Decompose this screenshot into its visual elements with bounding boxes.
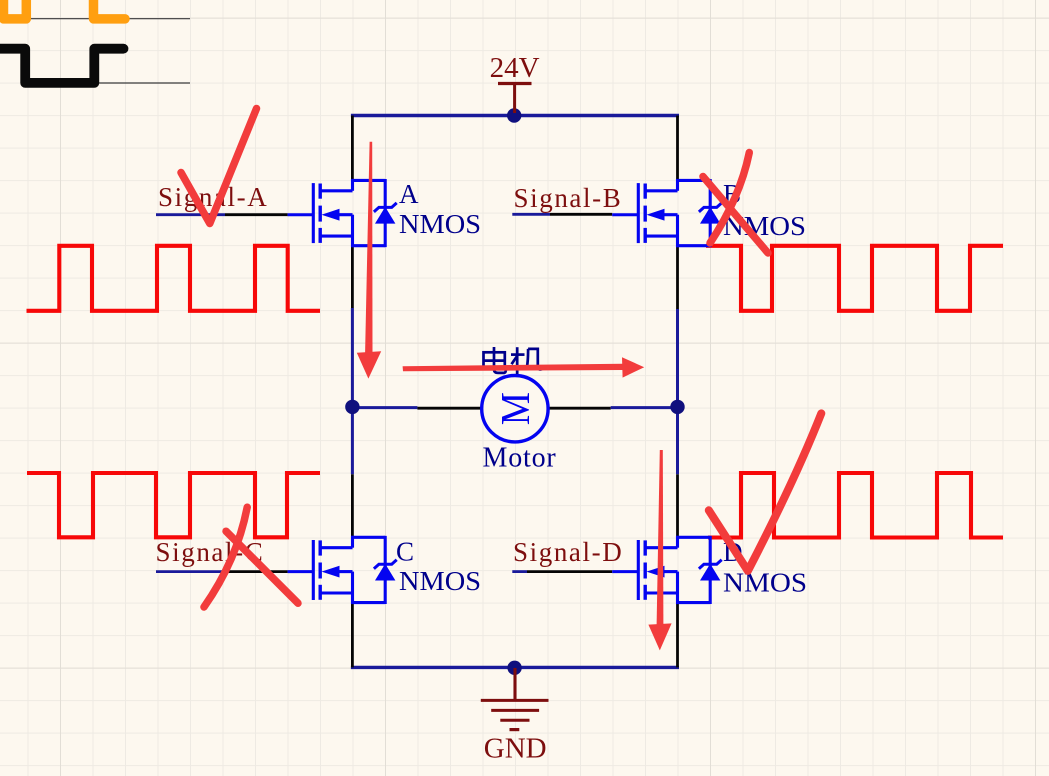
ground symbol bar 2 (491, 709, 539, 712)
wire Signal-A (black part) (225, 213, 288, 216)
ground symbol bar 4 (510, 728, 520, 731)
svg-text:Motor: Motor (483, 443, 557, 474)
wire: left rail below A (black) (351, 246, 354, 308)
transistor C (NMOS) (313, 536, 396, 604)
transistor B (NMOS) (638, 179, 721, 247)
wire Signal-A (navy part) (156, 213, 225, 216)
wire: left rail below mid junction (navy) (351, 407, 354, 475)
wire: motor branch right (navy) (611, 406, 678, 409)
wire: top rail 24V (351, 114, 679, 118)
power port 24V stem (513, 84, 516, 114)
wire: left rail drain stub A (black) (351, 116, 354, 181)
svg-text:NMOS: NMOS (399, 209, 481, 239)
wire: bottom rail GND (351, 666, 679, 669)
PWM waveform upper-left (Signal-A) (27, 246, 321, 311)
wire: motor branch middle (black) (417, 407, 610, 410)
junction motor left (345, 400, 359, 414)
transistor D (NMOS) (638, 536, 721, 604)
annotation X over B stroke 2 (710, 153, 749, 244)
axis line of black waveform (94, 82, 190, 84)
ground symbol bar 1 (481, 699, 549, 702)
svg-text:GND: GND (484, 733, 547, 765)
black waveform (0, 49, 124, 83)
label dianji (Chinese "motor") stroke drawing (484, 347, 542, 374)
svg-text:NMOS: NMOS (399, 566, 481, 596)
annotation X over Signal-C stroke 1 (204, 507, 247, 607)
gate lead Q-C (288, 570, 314, 573)
svg-text:24V: 24V (490, 52, 540, 84)
junction 24V (507, 108, 521, 122)
wire: right rail to mid junction (navy) (676, 309, 679, 407)
ground symbol bar 3 (500, 719, 529, 722)
wire: right rail below D (black) (676, 603, 679, 668)
PWM waveform lower-right (Signal-D) (708, 473, 1003, 538)
annotation arrow right (through motor) shaft (403, 364, 624, 371)
power port 24V bar (498, 82, 532, 85)
svg-text:Signal-B: Signal-B (514, 183, 623, 213)
annotation X over B stroke 1 (703, 177, 768, 254)
wire: right rail below B (black) (676, 246, 679, 309)
PWM waveform lower-left (Signal-C) (27, 473, 320, 537)
annotation arrow right head (622, 357, 644, 377)
annotation arrow down (left, current path A) shaft (365, 142, 372, 353)
junction motor right (670, 400, 684, 414)
wire: left rail below C (black) (351, 603, 354, 668)
axis line of orange waveform (28, 18, 190, 20)
wire: motor branch left (navy) (352, 406, 417, 409)
gate lead Q-D (612, 570, 638, 573)
wire: right rail above D (black) (676, 474, 679, 537)
transistor A (NMOS) (313, 179, 396, 247)
gate lead Q-B (612, 213, 638, 216)
annotation X over Signal-C stroke 2 (226, 531, 298, 603)
annotation check mark near D (709, 413, 822, 571)
wire Signal-C (navy part) (156, 570, 228, 573)
junction GND (507, 661, 521, 675)
wire Signal-B (black part) (550, 213, 612, 216)
annotation arrow down (right) head (648, 623, 671, 650)
annotation arrow down (right, current path D) shaft (657, 450, 664, 625)
annotation check mark over Signal-A (181, 109, 257, 224)
svg-text:C: C (396, 537, 414, 567)
motor circle (482, 376, 548, 442)
orange waveform segment 1 (4, 0, 27, 19)
svg-text:Signal-D: Signal-D (513, 537, 623, 567)
wire Signal-D (black part) (527, 570, 612, 573)
wire Signal-D (navy part) (512, 570, 527, 573)
orange waveform segment 2 (94, 0, 126, 19)
annotation arrow down (left) head (357, 351, 381, 378)
PWM waveform upper-right (Signal-B) (706, 246, 1003, 311)
svg-text:M: M (493, 392, 538, 425)
gate lead Q-A (288, 213, 314, 216)
wire Signal-B (navy part) (512, 213, 550, 216)
wire Signal-C (black part) (228, 570, 288, 573)
wire: right rail below mid junction (navy) (676, 407, 679, 475)
wire: right rail drain stub B (black) (676, 116, 679, 181)
svg-text:NMOS: NMOS (723, 568, 807, 598)
ground symbol stem (513, 668, 516, 700)
wire: left rail to mid junction (navy) (351, 308, 354, 407)
wire: left rail above C (black) (351, 474, 354, 537)
svg-text:A: A (399, 179, 419, 209)
